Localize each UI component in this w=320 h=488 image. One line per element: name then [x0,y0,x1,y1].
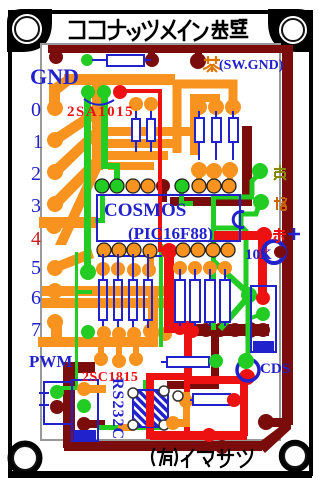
wire band vertical (orange) [92,85,103,170]
connector PWM [44,382,72,424]
mount hole bottom-right [281,442,309,470]
svg-text:0: 0 [31,99,41,121]
node spiral pads [191,99,207,115]
node IC bottom pins row1 [97,243,111,257]
wire pad6 bus long [42,286,182,296]
wire green center line [159,244,163,347]
LED box U2 [251,286,276,352]
svg-text:7: 7 [31,319,41,341]
svg-text:3: 3 [31,195,41,217]
node pad1 [47,132,63,148]
resistor R horizontal mid-low [161,361,167,363]
resistor pair left [132,108,155,152]
svg-text:10K: 10K [245,247,272,263]
traces [38,45,293,454]
node pad bottom right [258,414,274,430]
node IC pin5 dark red + stub [156,179,170,193]
trimmer 10K ring [263,241,285,263]
wire GND top bus (dark red) [48,45,288,53]
node bottom orange cluster [183,392,190,402]
wire pad5 diagonal [51,248,94,271]
node red junction [161,243,177,259]
wire pad3 diagonal [51,157,102,207]
wire band diagonal (orange) [55,165,103,245]
node IC bottom pins row2 [80,264,96,280]
wire green stub pin [179,190,184,206]
wire green diagonal up [214,262,249,294]
node pad3 [47,196,63,212]
wire 2SA collector (green) [101,95,108,167]
svg-text:1: 1 [33,131,43,153]
svg-text:6: 6 [31,287,41,309]
wire pad1 diagonal [51,108,100,143]
wire blue line under row1 [98,255,162,257]
wire dark red drop to crystal [211,336,219,386]
wire bundle bar1 (orange) [108,127,192,136]
svg-text:2SA1015: 2SA1015 [67,104,134,120]
node R pair pads orange [129,97,143,111]
wire pad2 diagonal [51,129,100,175]
node R1 left green [81,54,93,66]
wire orange stem col5 [147,249,154,273]
resistor bank left (4) [99,254,152,328]
label 橙 [274,197,286,210]
mount hole top-right [277,14,309,46]
label 黄 [274,165,286,180]
svg-text:PWM: PWM [29,352,72,371]
wire PWM branch (dark red) [63,362,95,373]
mount hole top-left [10,12,44,46]
svg-text:COSMOS: COSMOS [104,200,186,221]
node yellow pad [252,163,268,179]
wire CDS feed (green) [246,297,251,360]
wire orange-out (green) [214,208,258,228]
wire 2SA base (red thin) [120,89,162,93]
wire green inside IC [100,195,105,222]
svg-text:(SW.GND): (SW.GND) [219,58,284,73]
wire red plus feed [214,231,266,240]
resistor bank right (4) [175,269,230,326]
wire red band [164,251,174,324]
op-amp U1 IC box [97,195,240,241]
resistor bottom right R [173,391,183,401]
node pad5 [47,260,63,276]
mount hole bottom-left [10,443,40,473]
wire green branch x237 [241,226,246,293]
resistor group under spiral [195,111,238,160]
wire red vertical low [184,331,192,381]
wire center vertical (dark red) [242,126,252,206]
label 茶 [203,56,221,72]
node left bank bottom pads [81,325,95,339]
wire green left stub [75,290,92,294]
wire green diagonal down [220,296,249,329]
corner blob top-right [268,9,313,52]
wire green vertical mid [211,195,216,330]
wire 2SA emitter (green) [84,95,91,267]
node pad4 [46,218,62,234]
svg-text:GND: GND [30,64,79,89]
node orange pad [253,194,269,210]
wire bus2 [42,298,168,308]
wire center horizontal (dark red) [170,197,252,206]
node RS232C pad dark red [77,417,91,431]
node SW.GND pad [195,50,202,58]
wire bundle bar2 (orange) [108,139,180,148]
crystal X1 [133,390,168,427]
node pad mid [148,50,155,58]
wire center orange band [148,286,158,347]
board outline [41,44,280,440]
wire bottom-right corner (dark red) [257,418,291,453]
wire left lower ring (dark red) [63,362,75,448]
coil spiral outer (orange) [177,84,233,153]
svg-text:(PIC16F88): (PIC16F88) [128,224,213,243]
svg-text:RS232C: RS232C [109,378,126,440]
wire crystal green [143,380,147,408]
wire bottom bus (dark red) [64,441,262,451]
wire elbow to pad0 [49,84,60,110]
node pad2 [47,164,63,180]
svg-text:5: 5 [31,257,41,279]
node IC top pins row [95,179,109,193]
wire bundle bar4 (orange) [108,162,154,170]
node spiral-resistor pads to IC [191,162,207,178]
node 2SA pads [81,85,95,99]
title kanji (drawn strokes) [70,20,247,40]
corner blob top-left [7,9,52,52]
node pad0 [47,100,63,116]
wire red bus low [164,318,174,332]
wire mid-low bus (dark red) [194,324,269,336]
wire crystal red band [146,373,154,439]
wire red over crystal [146,391,154,427]
wire yellow-out (green) [213,173,260,197]
node GND pad left [49,50,63,64]
coil spiral inner (orange) [194,98,216,155]
connector RS232C [72,380,98,441]
node pad6 [47,283,63,299]
wire red bottom bus [150,431,247,440]
wire CDS red vertical [240,380,248,436]
label (有)イマサツ bottom [152,449,252,467]
wire bundle bar3 (orange) [108,151,168,160]
transistor Q2 2SC1815 pads [94,352,108,366]
svg-text:CDS: CDS [260,361,290,377]
transistor Q1 2SA1015 outline [84,99,114,105]
wire pad7 elbow [51,322,62,342]
svg-text:2: 2 [31,163,41,185]
svg-text:4: 4 [31,228,41,250]
resistor R1 top [92,59,107,61]
wire right ring (dark red) [282,45,293,425]
inductor hook blue [233,212,244,228]
node pad7 [47,314,63,330]
label 赤 and + [273,228,286,242]
label plus marks PWM [39,388,49,410]
wire GND orange bus [64,74,175,85]
wire LED stub (green) [248,314,262,319]
wire 2SC bus [38,337,151,347]
wire pad4 bar [39,217,97,228]
photocell CDS [237,359,259,381]
node green junction [241,287,257,303]
